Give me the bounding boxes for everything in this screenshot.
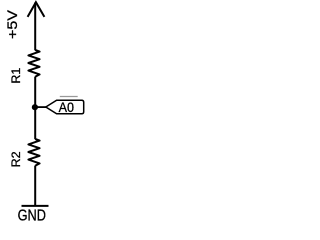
- wire from node A to A0 tag: [37, 106, 46, 108]
- resistor R2: [28, 139, 39, 166]
- junction dot node A: [32, 104, 38, 110]
- wire from R2 to ground: [34, 166, 36, 206]
- resistor R1: [28, 50, 39, 77]
- svg-text:R2: R2: [11, 151, 23, 167]
- svg-text:A0: A0: [59, 99, 75, 115]
- wire from +5V arrow to R1: [34, 3, 36, 51]
- net label tag A0 outline: [46, 100, 84, 113]
- svg-text:R1: R1: [11, 68, 23, 84]
- ground bar: [22, 205, 49, 207]
- power arrow +5V: [28, 2, 45, 17]
- svg-text:GND: GND: [18, 207, 46, 224]
- wire from R1 to R2 through node A: [34, 77, 36, 140]
- faint artifact line above A0 tag: [60, 96, 78, 98]
- svg-text:+5V: +5V: [4, 9, 20, 39]
